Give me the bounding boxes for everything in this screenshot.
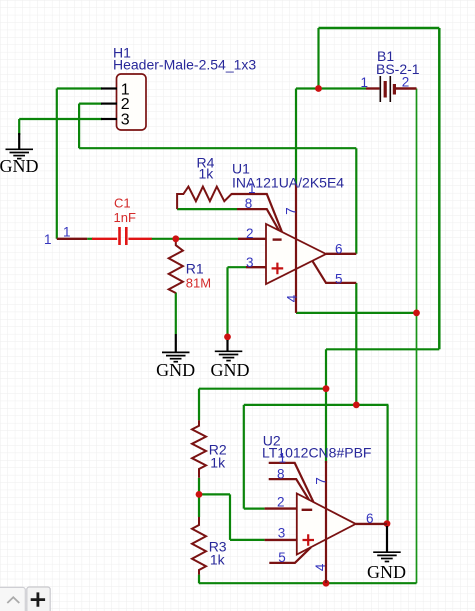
wire node1 to U1 pin2 <box>151 238 238 240</box>
wire header pin3 horizontal <box>19 118 102 120</box>
wire positive rail down to U2 pin7 node <box>325 349 327 388</box>
svg-text:C1: C1 <box>114 196 131 211</box>
capacitor C1 <box>120 227 127 245</box>
wire down to U2 pin6 <box>387 405 389 524</box>
svg-text:1: 1 <box>63 225 71 240</box>
H1 pin3 stub <box>101 118 117 120</box>
wire R4 left to U1 pin8 <box>177 208 237 210</box>
U1 plus sign <box>272 263 284 275</box>
wire U2 input horizontal <box>244 404 389 406</box>
svg-text:1: 1 <box>361 75 369 90</box>
U2 pin7 pin4 vertical through body <box>325 461 327 583</box>
wire red C1 to node <box>128 238 151 240</box>
wire U1 pin7 vertical <box>295 89 297 187</box>
svg-text:3: 3 <box>121 111 130 128</box>
U1 pin2 line <box>238 238 266 240</box>
wire header pin1 horizontal <box>57 87 102 89</box>
svg-text:1: 1 <box>248 181 256 196</box>
svg-text:5: 5 <box>278 550 286 565</box>
U2 pin6 line <box>356 523 387 525</box>
op-amp U2 <box>265 461 387 583</box>
junction U1 pin5 wire <box>353 402 360 409</box>
U1 pin8 line with diagonal <box>237 209 279 230</box>
svg-text:5: 5 <box>335 272 343 287</box>
wire U2 pin3 horizontal <box>230 539 265 541</box>
junction U2 pin4 rail <box>323 580 330 587</box>
svg-text:7: 7 <box>313 477 328 485</box>
U2 plus sign <box>303 534 315 546</box>
wire U2 pin2 horizontal <box>244 508 265 510</box>
svg-text:6: 6 <box>335 241 343 256</box>
U1 pin1 line with diagonal <box>232 194 283 232</box>
junction U1 gnd <box>224 334 231 341</box>
U2 pin5 line with diagonal <box>269 547 311 563</box>
svg-text:2: 2 <box>246 226 254 241</box>
svg-text:1k: 1k <box>210 455 226 471</box>
wire battery junction to battery pin1 <box>319 87 367 89</box>
U1 pin7 pin4 vertical through body <box>295 184 297 313</box>
wire U1 pin3 horizontal <box>228 266 247 268</box>
U2 pin1 line with diagonal <box>269 463 314 502</box>
ground symbol under U1 pin3 <box>211 340 250 380</box>
wire down to U2 pin2 <box>243 405 245 509</box>
svg-text:8: 8 <box>277 466 285 481</box>
svg-text:1k: 1k <box>199 166 215 182</box>
svg-text:6: 6 <box>366 511 374 526</box>
ground symbol under R1 <box>156 334 195 380</box>
wire header pin2 horizontal <box>79 102 102 104</box>
wire positive rail right vertical <box>438 28 441 349</box>
junction R2 rail <box>323 385 330 392</box>
resistor R2 <box>192 420 206 478</box>
junction U2 pin6 <box>384 520 391 527</box>
svg-text:4: 4 <box>313 563 328 571</box>
wire R2 bottom to junction <box>198 478 200 495</box>
svg-text:1: 1 <box>44 232 52 247</box>
junction U1 pin4 rail <box>413 310 420 317</box>
svg-text:3: 3 <box>278 526 286 541</box>
wire R2 R3 junction to R3 top <box>198 494 200 517</box>
wire header pin1 vertical down to node 1 <box>56 89 58 239</box>
U2 pin2 line <box>265 507 297 509</box>
resistor R4 <box>177 187 267 210</box>
svg-text:GND: GND <box>0 156 39 176</box>
wire header pin3 stub down to ground <box>18 119 20 135</box>
wire U2 pin7 vertical green part <box>325 389 327 463</box>
svg-text:R1: R1 <box>186 261 204 277</box>
bottom left zoom buttons <box>0 587 50 611</box>
wire U1 pin4 horizontal to negative rail <box>296 312 417 314</box>
ground symbol top-left <box>0 133 39 176</box>
wire R3 bottom to rail <box>198 575 200 584</box>
ground symbol at U2 output <box>367 526 406 582</box>
wire U1 pin3 vertical to ground <box>226 267 228 341</box>
wire header pin2 vertical <box>78 104 80 149</box>
U1 pin5 diagonal and line <box>312 261 356 283</box>
svg-text:2: 2 <box>277 494 285 509</box>
wire positive rail top horizontal <box>319 27 440 30</box>
svg-text:1k: 1k <box>210 552 226 568</box>
wire R1 bottom to ground <box>175 293 177 335</box>
svg-text:GND: GND <box>211 360 250 380</box>
svg-text:3: 3 <box>246 255 254 270</box>
wire battery pin2 negative rail vertical <box>416 89 418 584</box>
junction R2 R3 <box>196 491 203 498</box>
junction battery node <box>315 85 322 92</box>
wire net of U1 pin6 long horizontal <box>79 147 356 149</box>
U1 pin6 line <box>326 253 356 255</box>
wire U1 pin5 vertical down <box>355 283 357 405</box>
resistor R3 <box>192 517 206 575</box>
svg-text:BS-2-1: BS-2-1 <box>376 61 420 77</box>
wire vertical to U1 pin6 <box>355 148 357 254</box>
wire positive rail lower horizontal <box>326 348 439 350</box>
wire bottom negative rail horizontal <box>199 582 417 584</box>
port 1 pin line maroon <box>57 238 87 240</box>
U2 minus sign <box>302 509 313 511</box>
svg-text:7: 7 <box>284 207 299 215</box>
op-amp U1 <box>232 184 357 313</box>
wire red from port to C1 <box>92 238 117 240</box>
U1 minus sign <box>273 238 282 240</box>
wire battery junction to U1 pin7 column <box>296 87 319 89</box>
U2 pin8 line with diagonal <box>269 479 309 500</box>
wire positive rail up <box>317 28 319 89</box>
svg-text:81M: 81M <box>186 276 211 291</box>
svg-text:GND: GND <box>367 562 406 582</box>
wire R2 top horizontal <box>199 388 326 390</box>
resistor R1 <box>169 239 183 293</box>
wire junction to U2 pin3 horizontal <box>199 493 230 495</box>
U1 pin3 line <box>246 266 266 268</box>
svg-text:1: 1 <box>279 450 287 465</box>
svg-text:Header-Male-2.54_1x3: Header-Male-2.54_1x3 <box>113 57 256 73</box>
svg-text:8: 8 <box>245 196 253 211</box>
H1 pin2 stub <box>101 102 117 104</box>
junction C1 R1 node <box>172 235 179 242</box>
wire small green at port <box>87 238 93 240</box>
svg-text:1nF: 1nF <box>114 210 136 225</box>
wire U2 pin3 vertical <box>229 494 231 540</box>
header H1 box <box>117 74 147 130</box>
battery B1 <box>366 76 417 102</box>
H1 pin1 stub <box>101 87 117 89</box>
svg-text:GND: GND <box>156 360 195 380</box>
U2 pin3 line <box>265 539 297 541</box>
wire R2 top vertical <box>198 389 200 421</box>
svg-text:4: 4 <box>285 294 300 302</box>
